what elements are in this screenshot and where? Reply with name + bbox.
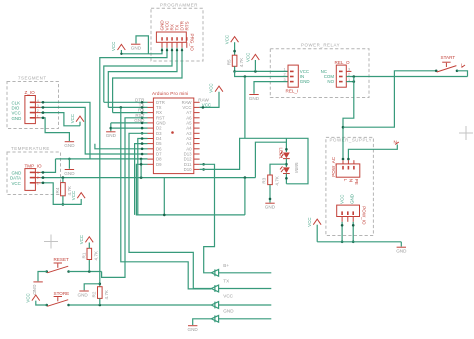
svg-text:GND: GND	[64, 143, 75, 148]
net port B+	[211, 263, 271, 276]
svg-text:L: L	[343, 179, 348, 182]
wire U1 D3 staircase	[129, 132, 211, 289]
svg-text:GND: GND	[32, 285, 37, 296]
wire PRG pin2 to long vertical	[100, 48, 168, 287]
wire Z_IO pin4 (CLK) down to D8 row	[41, 101, 144, 159]
ground symbol (RESET)	[32, 282, 43, 295]
svg-text:VCC: VCC	[223, 294, 233, 299]
origin crosshair right	[459, 126, 473, 140]
origin crosshair left	[44, 235, 58, 249]
svg-text:PRG_IO: PRG_IO	[190, 34, 195, 52]
svg-text:VCC: VCC	[339, 195, 344, 204]
svg-text:STORE: STORE	[54, 291, 70, 296]
wire IN net vertical to LED branch	[244, 77, 246, 139]
power VCC arrow (STORE)	[26, 293, 40, 302]
wire U1 RST to reset circuit	[102, 117, 148, 278]
net flag N	[394, 140, 399, 145]
pin names U1 left column	[156, 100, 166, 167]
frame module PROGRAMMER	[151, 3, 203, 62]
svg-text:1: 1	[37, 181, 39, 185]
wire REL_I pin3 to ground	[254, 82, 288, 94]
wire live loop to START switch	[343, 71, 436, 127]
connector TMP_IO (temperature)	[25, 163, 43, 190]
wire U1 D6	[95, 144, 148, 150]
svg-text:TMP_IO: TMP_IO	[25, 163, 43, 168]
svg-text:PE: PE	[354, 179, 359, 185]
net port TX	[211, 279, 271, 292]
wire N to AC pin2	[342, 145, 398, 161]
svg-text:7SEGMENT: 7SEGMENT	[18, 76, 47, 81]
wire REL_O COM long rail to L	[346, 75, 467, 78]
power VCC arrow (U1 VCC pin)	[209, 83, 223, 92]
pushbutton S1 RESET	[45, 257, 69, 273]
pin stubs PRG_IO	[162, 42, 187, 48]
svg-text:N: N	[349, 179, 354, 182]
resistor R1 4.7K	[81, 243, 98, 272]
resistor R5 4.7K (relay drive)	[226, 42, 244, 72]
connector Z_IO (7-segment)	[25, 90, 36, 123]
wire U1 GND pin to ground	[110, 122, 148, 132]
svg-text:4.7K: 4.7K	[239, 57, 244, 67]
svg-text:VCC: VCC	[307, 217, 312, 226]
svg-text:GND: GND	[265, 205, 276, 210]
wire POW_IO pin1 to rail	[341, 222, 344, 243]
pin numbers TMP_IO	[37, 171, 39, 185]
wire IN net R5 to REL_I pin2	[235, 71, 288, 77]
svg-text:4.7K: 4.7K	[94, 250, 99, 260]
connector PRG_IO	[156, 32, 194, 51]
svg-text:GND: GND	[134, 118, 145, 123]
power VCC arrow (REL_I)	[245, 53, 259, 72]
pin stubs U1 right	[194, 102, 200, 169]
svg-text:D9: D9	[156, 162, 162, 167]
wire Z_IO pin3 (DIO) to U1 D7	[41, 106, 148, 155]
wire REL_O NO to step-down	[342, 77, 355, 160]
switch S3 START	[435, 55, 458, 72]
svg-text:VCC: VCC	[209, 83, 214, 92]
svg-text:Arduino Pro mini: Arduino Pro mini	[152, 91, 188, 96]
svg-text:R4: R4	[55, 187, 60, 193]
svg-text:VCC: VCC	[245, 53, 250, 62]
resistor R4 4.7K (temperature pullup)	[55, 178, 72, 206]
wire U1 D11 to B+ port	[200, 163, 215, 273]
svg-text:LED1: LED1	[279, 148, 284, 160]
svg-text:POW_IO: POW_IO	[361, 206, 366, 225]
pin stubs TMP_IO	[35, 172, 40, 182]
svg-text:R1: R1	[81, 252, 86, 258]
wire U1 D8 to DATA bus	[56, 158, 148, 178]
power VCC arrow (supply rail)	[307, 217, 321, 241]
pin numbers Z_IO	[37, 99, 39, 119]
wire LED junction	[285, 159, 288, 167]
svg-text:3: 3	[284, 78, 286, 82]
svg-text:TEMPERATURE: TEMPERATURE	[11, 146, 50, 151]
wire DATA bus TMP_IO pin2 to LED feed	[41, 176, 256, 179]
wire supply output rail	[317, 241, 401, 243]
frame module TEMPERATURE	[7, 146, 61, 195]
svg-text:GND: GND	[396, 249, 407, 254]
pin numbers REL_O	[348, 68, 350, 82]
ground symbol (supply rail)	[396, 242, 407, 254]
svg-text:VCC: VCC	[26, 293, 31, 302]
svg-text:GND: GND	[223, 309, 234, 314]
wire VCC rail to REL_I pin1	[235, 70, 288, 73]
svg-text:2: 2	[37, 176, 39, 180]
svg-text:GND: GND	[188, 327, 199, 332]
wire LED mid node to R3	[270, 164, 286, 175]
svg-text:GND: GND	[249, 96, 260, 101]
ground symbol (U1 GND)	[106, 132, 117, 138]
wire STORE to bottom VCC rail	[69, 304, 212, 307]
wire U1 D5	[135, 142, 148, 215]
svg-text:VCC: VCC	[71, 191, 76, 200]
pushbutton S2 STORE	[45, 291, 69, 306]
svg-text:PROGRAMMER: PROGRAMMER	[160, 3, 198, 8]
svg-text:GND: GND	[349, 194, 354, 204]
power VCC arrow (temperature)	[71, 191, 85, 200]
svg-text:GND: GND	[78, 293, 89, 298]
svg-text:GND: GND	[64, 171, 75, 176]
wire D10 up-and-over to LED bypass	[200, 138, 308, 184]
wire VCC arrow to PRG pin1	[120, 48, 163, 55]
resistor R3 4.7K (LED)	[262, 175, 280, 203]
pin stubs U1 left	[148, 102, 154, 164]
svg-text:2: 2	[284, 73, 286, 77]
ground symbol (temperature)	[64, 170, 75, 176]
svg-text:POWER_SUPPLY: POWER_SUPPLY	[330, 138, 373, 143]
svg-text:TX: TX	[223, 279, 229, 284]
ground symbol (GND port)	[188, 326, 199, 333]
pin stubs Z_IO	[35, 102, 40, 118]
svg-text:3: 3	[37, 171, 39, 175]
connector REL_I	[286, 65, 299, 94]
svg-text:VCC: VCC	[12, 181, 21, 186]
ground symbol (REL_I)	[249, 95, 260, 102]
frame module POWER_RELAY	[270, 43, 369, 98]
svg-text:NO: NO	[327, 79, 334, 84]
svg-text:VCC: VCC	[70, 114, 75, 123]
wire U1 D4	[138, 137, 148, 215]
wire RESET left to ground	[38, 272, 47, 282]
pin names U1 right column	[182, 100, 193, 172]
wire TMP_IO pin3 to ground	[41, 158, 71, 174]
svg-text:5MM: 5MM	[294, 163, 299, 173]
connector POW_IO	[337, 205, 367, 225]
svg-text:VCC: VCC	[225, 35, 230, 44]
pin numbers REL_I	[284, 68, 286, 82]
wire net TX staircase	[120, 106, 212, 289]
wire U1 D9 loop	[136, 163, 245, 216]
wire POW_IO pin3 to rail	[352, 222, 355, 243]
svg-text:POWER_RELAY: POWER_RELAY	[301, 43, 340, 48]
svg-text:B+: B+	[223, 263, 229, 268]
svg-text:GND: GND	[12, 116, 22, 121]
wire STORE left from VCC	[36, 301, 47, 305]
wire RESET right to R1 and RST net	[69, 270, 102, 273]
connector POW_AC	[331, 156, 360, 177]
svg-text:1: 1	[284, 68, 286, 72]
pin stub REL_O NC	[346, 70, 351, 72]
IC U1 Arduino Pro mini	[152, 91, 194, 174]
frame module POWER_SUPPLY	[326, 137, 374, 235]
ground symbol (R2)	[78, 291, 89, 298]
wire PRG pin4 loop to Arduino RX	[108, 48, 178, 108]
resistor R2 4.7K (store pulldown)	[92, 283, 110, 306]
wire U1 VCC pin to VCC arrow	[200, 92, 219, 109]
svg-text:D10: D10	[184, 167, 192, 172]
ground symbol (R3)	[265, 203, 276, 210]
power VCC arrow (7-segment)	[70, 114, 84, 126]
svg-text:4.7K: 4.7K	[104, 289, 109, 299]
wire loops to U1 DTR TX RX rows	[104, 102, 148, 114]
power VCC arrow (R1)	[79, 235, 93, 244]
ground symbol (7-segment)	[64, 142, 75, 148]
svg-text:START: START	[441, 55, 456, 60]
svg-text:REL_I: REL_I	[286, 89, 299, 94]
svg-text:GND: GND	[131, 46, 142, 51]
wire Z_IO pin2 to VCC arrow	[41, 111, 80, 126]
net port GND	[211, 309, 271, 323]
wire LED feed from DATA bus	[255, 142, 286, 177]
svg-text:RTS: RTS	[184, 21, 189, 30]
wire PRG pin5 loop to Arduino DTR	[113, 48, 184, 113]
wire START to L rail	[457, 71, 468, 77]
svg-text:R5: R5	[226, 59, 231, 65]
svg-text:RESET: RESET	[54, 257, 70, 262]
net port VCC	[211, 294, 271, 309]
wire PRG pin3 loop to Arduino TX	[104, 48, 173, 103]
wire R2 to ground	[84, 284, 100, 291]
svg-text:4.7K: 4.7K	[274, 175, 279, 185]
svg-text:GND: GND	[106, 133, 117, 138]
svg-text:Z_IO: Z_IO	[25, 90, 36, 95]
wire Z_IO pin1 to ground	[41, 117, 70, 142]
svg-text:R2: R2	[92, 291, 97, 297]
svg-text:VCC: VCC	[79, 235, 84, 244]
svg-text:R3: R3	[262, 177, 267, 183]
wire TMP_IO pin1 to VCC	[41, 182, 81, 205]
LED D2	[280, 163, 299, 184]
frame module 7SEGMENT	[7, 76, 59, 129]
svg-text:GND: GND	[300, 79, 310, 84]
connector REL_O	[335, 60, 350, 87]
wire programmer ground	[136, 36, 148, 54]
power VCC arrow (R5)	[225, 35, 239, 44]
power VCC arrow (programmer)	[111, 42, 125, 51]
ground symbol (programmer)	[131, 44, 142, 50]
svg-text:VCC: VCC	[111, 42, 116, 51]
svg-text:POW_AC: POW_AC	[331, 156, 336, 177]
wire GND port to ground	[193, 319, 212, 325]
LED D1	[279, 138, 290, 159]
svg-text:REL_O: REL_O	[335, 60, 350, 65]
